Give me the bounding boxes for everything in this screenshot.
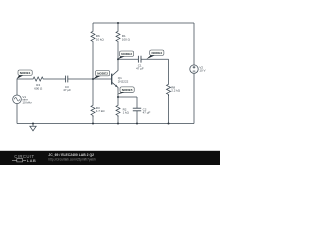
node NODE1 flag bbox=[17, 70, 33, 79]
svg-text:4.7 kΩ: 4.7 kΩ bbox=[96, 109, 106, 113]
junction dot collector node bbox=[117, 58, 119, 60]
wire C2 bottom lead bbox=[136, 111, 138, 124]
svg-text:NODE5: NODE5 bbox=[122, 88, 133, 92]
resistor R4 bbox=[32, 77, 45, 81]
transistor Q1 emitter lead bbox=[112, 82, 118, 97]
transistor Q1 base bar bbox=[111, 74, 113, 85]
node NODE5 flag bbox=[117, 87, 134, 95]
wire R4 to C3 bbox=[45, 78, 66, 80]
svg-text:10 kHz: 10 kHz bbox=[22, 101, 32, 105]
footer bar bbox=[0, 151, 220, 165]
svg-text:LAB: LAB bbox=[27, 158, 36, 163]
wire bottom rail bbox=[17, 123, 194, 125]
svg-text:JC_69 / ELEC2400 LAB 2 Q2: JC_69 / ELEC2400 LAB 2 Q2 bbox=[48, 153, 94, 157]
wire top rail bbox=[93, 22, 194, 24]
wire collector rail right bbox=[141, 58, 169, 60]
wire C3 to base node bbox=[68, 78, 112, 80]
junction dot base node bbox=[92, 78, 94, 80]
wire right rail lower (from V2) bbox=[193, 73, 195, 123]
svg-text:100 Ω: 100 Ω bbox=[122, 37, 131, 41]
svg-text:10 V: 10 V bbox=[199, 69, 205, 73]
voltage source V2 circle bbox=[190, 65, 198, 73]
svg-text:47 µF: 47 µF bbox=[136, 67, 144, 71]
capacitor C1 plate right bbox=[140, 56, 142, 63]
wire V1 top lead bbox=[17, 79, 32, 95]
wire R1 top lead bbox=[117, 23, 119, 30]
svg-text:2.2 kΩ: 2.2 kΩ bbox=[171, 89, 181, 93]
svg-text:2N2222: 2N2222 bbox=[118, 79, 129, 83]
capacitor C1 plate left bbox=[137, 56, 139, 63]
node NODE2 flag bbox=[93, 71, 110, 80]
wire C2 top lead bbox=[136, 97, 138, 108]
footer CircuitLab logo bbox=[12, 154, 36, 163]
resistor R2 bbox=[116, 104, 120, 117]
junction dot emitter node bbox=[117, 96, 119, 98]
capacitor C3 plate right bbox=[67, 76, 69, 83]
svg-text:10 kΩ: 10 kΩ bbox=[96, 37, 105, 41]
wire R6 top lead bbox=[92, 23, 94, 30]
svg-text:NODE1: NODE1 bbox=[20, 71, 31, 75]
resistor R6 bbox=[91, 30, 95, 43]
capacitor C2 plate bottom bbox=[133, 110, 141, 112]
wire right rail upper (to V2) bbox=[193, 23, 195, 65]
wire R2 bottom lead bbox=[117, 116, 119, 124]
wire R3 top lead bbox=[92, 79, 94, 104]
wire collector rail left bbox=[118, 58, 138, 60]
wire R6 bottom lead to node bbox=[92, 43, 94, 79]
junction dot R3 bottom bbox=[92, 123, 94, 125]
svg-text:47 µF: 47 µF bbox=[63, 88, 71, 92]
voltage source V1 circle bbox=[13, 95, 22, 104]
svg-text:600 Ω: 600 Ω bbox=[34, 86, 43, 90]
resistor R1 bbox=[116, 30, 120, 43]
svg-text:47 µF: 47 µF bbox=[143, 110, 151, 114]
junction dot ground rail bbox=[32, 123, 34, 125]
junction dot C2 bottom bbox=[136, 123, 138, 125]
voltage source V2 minus bbox=[193, 70, 196, 72]
wire R1 bottom lead to collector node bbox=[117, 43, 119, 59]
capacitor C3 plate left bbox=[65, 76, 67, 83]
ground symbol bbox=[30, 124, 36, 131]
svg-text:NODE4: NODE4 bbox=[151, 51, 162, 55]
resistor R3 bbox=[91, 104, 95, 117]
wire emitter node horizontal bbox=[118, 96, 137, 98]
voltage source V2 plus bbox=[193, 66, 196, 69]
svg-text:http://circuitlab.com/c5pmfh7y: http://circuitlab.com/c5pmfh7yabh bbox=[48, 158, 96, 162]
wire V1 bottom lead bbox=[16, 104, 18, 124]
svg-text:1 kΩ: 1 kΩ bbox=[123, 110, 130, 114]
node NODE3 flag bbox=[118, 51, 134, 59]
wire R8 bottom lead bbox=[168, 95, 170, 124]
junction dot R2 bottom bbox=[117, 123, 119, 125]
wire R3 bottom lead bbox=[92, 116, 94, 124]
voltage source V1 sine bbox=[14, 98, 19, 101]
node NODE4 flag bbox=[146, 50, 164, 59]
junction dot top rail R1 bbox=[117, 22, 119, 24]
wire R8 top lead bbox=[168, 59, 170, 83]
svg-text:NODE3: NODE3 bbox=[121, 52, 132, 56]
resistor R8 bbox=[167, 83, 171, 96]
svg-text:NODE2: NODE2 bbox=[97, 72, 108, 76]
transistor Q1 collector lead bbox=[112, 59, 118, 76]
junction dot R8 bottom bbox=[168, 123, 170, 125]
transistor Q1 emitter arrowhead bbox=[115, 85, 118, 88]
capacitor C2 plate top bbox=[133, 107, 141, 109]
wire R2 top lead bbox=[117, 97, 119, 104]
